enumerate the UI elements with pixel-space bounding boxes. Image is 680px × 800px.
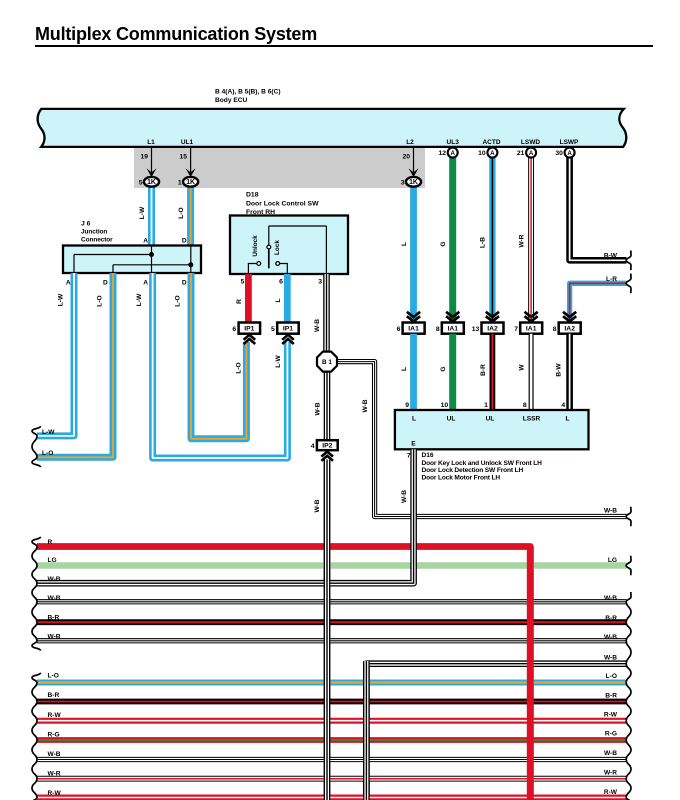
svg-text:R-W: R-W [604,789,618,796]
page edge brace right L-R [626,274,631,294]
page edge brace right rows W-B..R-W [626,592,631,800]
page edge brace left rows R..W-B [32,537,41,651]
svg-text:A: A [66,279,71,286]
svg-text:L-O: L-O [97,295,104,306]
connector IA1 pin 6 [407,312,420,317]
svg-text:L-R: L-R [606,276,617,283]
svg-text:L-W: L-W [136,293,143,306]
svg-text:L-W: L-W [275,355,282,368]
junction connector J6 box [63,246,201,274]
svg-text:W-B: W-B [314,319,321,332]
wire R-W horizontal row 1 [37,718,627,724]
svg-text:L1: L1 [147,139,155,146]
svg-text:Door Lock Detection SW Front L: Door Lock Detection SW Front LH [422,467,524,474]
wire B-R horizontal row 1 [37,619,627,625]
svg-text:A: A [143,279,148,286]
svg-text:W-B: W-B [401,490,408,503]
connector IA1 pin 8 [446,312,459,317]
svg-text:IA1: IA1 [408,326,419,333]
wire W-B horizontal row 4 from right edge down to page bottom [366,664,626,800]
wire R horizontal row then down to page bottom [37,547,530,800]
svg-text:A: A [567,150,572,157]
svg-text:3: 3 [401,179,405,186]
svg-text:7: 7 [407,453,411,460]
svg-text:IP2: IP2 [322,443,332,450]
wire W-R from LSWD down to IA1 [528,156,534,323]
svg-text:W-B: W-B [48,634,61,641]
page edge brace right LG [626,556,631,576]
svg-text:B-R: B-R [480,364,487,376]
1K oval connector 5 [144,177,159,187]
svg-text:UL1: UL1 [181,139,194,146]
svg-text:L-O: L-O [178,207,185,218]
svg-text:12: 12 [438,150,446,157]
svg-text:L-O: L-O [42,450,53,457]
wire W-B branch from B1 right, down, right to page edge [335,362,627,517]
svg-text:ACTD: ACTD [482,139,500,146]
svg-text:W-B: W-B [48,595,61,602]
svg-text:L: L [275,298,282,302]
component D18 Door Lock Control SW Front RH [230,216,348,275]
svg-text:15: 15 [180,153,188,160]
J6 internal bus wires [151,246,153,274]
wire L-O horizontal row [37,680,627,686]
connector IP1 pin 5 [277,323,299,334]
svg-text:G: G [440,366,447,371]
svg-text:B-R: B-R [605,615,617,622]
wire B-R from IA2 to D16 pin 1 [489,334,495,410]
wire L-R from page edge to IA2 [570,283,627,323]
svg-text:Junction: Junction [81,229,107,236]
svg-text:B-R: B-R [605,692,617,699]
wire W-B horizontal row 5 [37,757,627,762]
svg-text:8: 8 [553,326,557,333]
svg-text:L-O: L-O [48,672,59,679]
svg-text:B-W: B-W [604,253,618,260]
wire L-O from J6 D to left page edge [37,273,113,457]
wire L from D18 pin 6 to IP1 5 [284,274,291,323]
svg-text:W-B: W-B [604,595,617,602]
pin stub and arrow at x=152 [151,148,153,172]
connector IA2 pin 8 [563,312,576,317]
page edge brace right B-W [626,251,631,271]
wire R vertical drop redrawn over rows [527,547,534,800]
svg-text:UL3: UL3 [447,139,460,146]
diagram title [35,24,317,45]
A circle connector 12 [448,148,458,158]
wire L from 1K L2 down to IA1 [410,182,417,323]
svg-text:9: 9 [405,402,409,409]
title rule [35,45,653,47]
svg-text:10: 10 [441,402,449,409]
connector IP1 pin 6 [239,323,261,334]
svg-text:L-O: L-O [236,362,243,373]
svg-text:L: L [401,242,408,246]
svg-text:D: D [182,279,187,286]
svg-text:R: R [236,299,243,304]
svg-text:A: A [529,150,534,157]
connector IA2 pin 13 [486,312,499,317]
svg-text:W-B: W-B [604,508,617,515]
wire L-O U-loop from J6 D to IP1 6 [191,273,246,439]
svg-text:R-W: R-W [48,712,62,719]
wire W-B horizontal row 3 [37,638,627,643]
wire B-W from LSWP down then right to page edge [570,156,627,260]
svg-text:L-W: L-W [139,206,146,219]
wire R from D18 pin 5 to IP1 6 [245,274,252,323]
component D16 box [395,410,589,449]
svg-text:D16: D16 [422,452,434,459]
junction dot on L-O bus [188,262,193,267]
svg-text:J 6: J 6 [81,220,91,227]
svg-text:L-O: L-O [175,295,182,306]
wire L-O from 1K to J6 [187,182,194,246]
svg-text:Connector: Connector [81,237,113,244]
svg-text:B-W: B-W [556,363,563,377]
svg-text:8: 8 [436,326,440,333]
page edge brace left rows L-O..R-W [32,673,41,800]
svg-text:LG: LG [608,557,617,564]
wire W-B from D16 pin 7 E down then left to page edge [37,449,414,583]
svg-text:6: 6 [279,279,283,286]
wire L-W from 1K to J6 [148,182,155,246]
switch lever [268,249,270,268]
svg-text:E: E [411,440,416,447]
svg-text:IP1: IP1 [244,326,254,333]
wire L-W from J6 A to left page edge [37,273,74,436]
wire W-B from B1 down to IP2 [324,371,331,441]
svg-text:LSWD: LSWD [521,139,540,146]
wire B-R horizontal row 2 [37,699,627,705]
svg-text:W: W [519,364,526,371]
wire L-B from ACTD down to IA2 [489,156,495,323]
svg-text:30: 30 [555,150,563,157]
svg-text:W-B: W-B [314,402,321,415]
svg-text:Lock: Lock [274,240,281,255]
svg-text:Front RH: Front RH [246,209,275,216]
svg-text:W-R: W-R [604,770,617,777]
svg-text:4: 4 [561,402,565,409]
svg-text:21: 21 [517,150,525,157]
pin stub and arrow at x=414 [413,148,415,172]
gray harness panel [134,147,425,188]
1K oval connector 1 [183,177,198,187]
svg-text:Body ECU: Body ECU [215,97,247,104]
svg-text:W-R: W-R [518,234,525,247]
svg-text:L: L [401,367,408,371]
svg-text:LSWP: LSWP [560,139,579,146]
svg-text:5: 5 [241,279,245,286]
Body ECU band [38,109,627,147]
wire R-W horizontal row 2 [37,795,627,800]
svg-text:W-R: W-R [48,771,61,778]
A circle connector 21 [526,148,536,158]
svg-text:1: 1 [178,179,182,186]
svg-text:LG: LG [48,557,57,564]
svg-text:13: 13 [472,326,480,333]
page edge brace left L-W L-O [32,426,41,467]
svg-text:IA1: IA1 [448,326,459,333]
wire R-G horizontal row [37,737,627,743]
wire B-W from IA2 to D16 pin 4 [566,334,573,410]
svg-text:L-O: L-O [606,673,617,680]
page edge brace right W-B [626,507,631,527]
svg-text:W-B: W-B [314,499,321,512]
svg-text:LSSR: LSSR [523,415,541,422]
wire W-B below IP2 down to page bottom [324,460,331,800]
svg-text:6: 6 [397,326,401,333]
svg-text:R-G: R-G [605,731,617,738]
svg-text:IA2: IA2 [564,326,575,333]
svg-text:4: 4 [311,443,315,450]
svg-text:1K: 1K [409,179,418,186]
svg-text:R-W: R-W [48,790,62,797]
svg-text:R-W: R-W [604,711,618,718]
svg-text:8: 8 [523,402,527,409]
svg-text:B 1: B 1 [322,359,332,366]
svg-text:3: 3 [318,279,322,286]
junction dot on L-W bus [149,252,154,257]
svg-text:IA1: IA1 [526,326,537,333]
svg-text:B-R: B-R [48,614,60,621]
wire W from IA1 to D16 pin 8 [529,334,534,410]
svg-text:D: D [182,237,187,244]
A circle connector 30 [565,148,575,158]
1K oval connector 3 [406,177,421,187]
svg-text:Door Lock Control SW: Door Lock Control SW [246,201,319,208]
wire L-W U-loop from J6 A to IP1 5 [153,273,288,458]
svg-text:UL: UL [447,415,456,422]
svg-text:R-G: R-G [48,732,60,739]
svg-text:1K: 1K [186,179,195,186]
connector IA1 pin 7 [525,312,538,317]
svg-text:B 4(A), B 5(B), B 6(C): B 4(A), B 5(B), B 6(C) [215,88,281,95]
svg-text:5: 5 [139,179,143,186]
svg-text:B-R: B-R [48,692,60,699]
svg-text:A: A [490,150,495,157]
wire W-R horizontal row [37,776,627,782]
svg-text:1K: 1K [147,179,156,186]
svg-text:L-W: L-W [58,293,65,306]
svg-text:W-B: W-B [362,399,369,412]
svg-text:L: L [412,415,416,422]
wire G from IA1 to D16 pin 10 [449,334,456,410]
svg-text:W-B: W-B [604,750,617,757]
wire W-B IP2 drop redrawn over rows [324,460,331,800]
svg-text:D: D [103,279,108,286]
svg-text:Unlock: Unlock [252,235,259,257]
svg-text:G: G [440,241,447,246]
svg-text:19: 19 [140,153,148,160]
svg-text:6: 6 [232,326,236,333]
svg-text:IP1: IP1 [283,326,293,333]
A circle connector 10 [487,148,497,158]
svg-text:L-B: L-B [480,237,487,248]
svg-text:A: A [143,237,148,244]
svg-text:Door Key Lock and Unlock SW Fr: Door Key Lock and Unlock SW Front LH [422,460,543,467]
wire W-B from D18 pin 3 to B1 [323,274,330,352]
svg-text:D18: D18 [246,192,259,199]
svg-text:7: 7 [514,326,518,333]
svg-text:W-B: W-B [604,655,617,662]
svg-text:L2: L2 [406,139,414,146]
connector IP2 pin 4 [317,440,338,450]
wire G from UL3 down to IA1 [449,156,456,323]
svg-text:A: A [450,150,455,157]
svg-text:10: 10 [478,150,486,157]
svg-text:5: 5 [271,326,275,333]
svg-text:R: R [48,539,53,546]
svg-text:L-W: L-W [42,429,55,436]
svg-text:IA2: IA2 [487,326,498,333]
connector B1 octagon [317,352,337,372]
switch contact lock side [280,264,287,275]
svg-text:20: 20 [402,153,410,160]
wire L from IA1 to D16 pin 9 [410,334,417,410]
D18 internal wiring [269,225,327,227]
svg-text:W-B: W-B [604,634,617,641]
svg-text:UL: UL [486,415,495,422]
svg-text:Door Lock Motor Front LH: Door Lock Motor Front LH [422,474,501,481]
wire W-B horizontal row 2 [37,599,627,604]
svg-text:L: L [565,415,569,422]
svg-text:W-B: W-B [48,751,61,758]
svg-text:W-B: W-B [48,576,61,583]
switch contact unlock side [248,264,256,275]
wire W-B row 4 drop redrawn over rows [363,661,370,800]
pin stub and arrow at x=191 [190,148,192,172]
svg-text:1: 1 [484,402,488,409]
wire LG horizontal row [37,562,627,569]
